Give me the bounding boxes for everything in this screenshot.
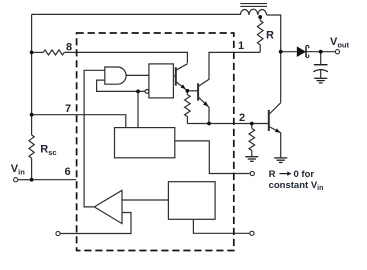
reference block xyxy=(168,182,215,220)
wire Q1 res lead bottom xyxy=(186,117,188,124)
wire AND lower input loop xyxy=(97,80,145,91)
node Vout cap xyxy=(319,50,323,54)
wire block to comparator input xyxy=(122,199,168,201)
resistor pin8 xyxy=(43,50,64,55)
wire diode anode xyxy=(281,51,297,53)
resistor Q1 emitter xyxy=(185,95,191,117)
svg-text:0 for: 0 for xyxy=(294,169,315,180)
wire left rail lower xyxy=(31,158,33,180)
latch block xyxy=(149,64,174,98)
wire comparator output to AND input xyxy=(84,70,105,207)
wire diode cathode to Vout xyxy=(306,51,335,53)
wire ext transistor collector diagonal xyxy=(269,103,281,115)
diode D1 schottky xyxy=(297,46,306,57)
comparator xyxy=(94,190,122,223)
svg-text:7: 7 xyxy=(65,103,71,115)
wire AND output to latch xyxy=(126,74,149,76)
resistor pin2 xyxy=(249,129,255,151)
ground Q3 emitter xyxy=(274,158,287,163)
wire Q2 emitter xyxy=(198,97,209,124)
wire pin 6 xyxy=(32,179,77,181)
ground cap xyxy=(314,78,327,83)
wire left rail upper xyxy=(31,14,33,134)
svg-text:6: 6 xyxy=(64,166,70,178)
wire comparator lower input to pin5 terminal xyxy=(60,213,131,234)
capacitor C1 plates xyxy=(314,64,328,66)
node osc gate latch xyxy=(136,90,140,94)
wire Q2 collector xyxy=(198,52,260,86)
wire switch collector rail xyxy=(267,15,281,103)
dashed IC box xyxy=(77,33,234,251)
node Vin rail xyxy=(30,178,34,182)
resistor R external xyxy=(257,21,263,45)
transistor Q2 base bar xyxy=(197,83,199,100)
and gate U1 xyxy=(105,67,126,84)
node Q2 emitter xyxy=(207,122,211,126)
svg-text:8: 8 xyxy=(66,42,72,54)
node pin8 rail xyxy=(30,51,34,55)
node inductor tap xyxy=(258,15,262,19)
svg-text:1: 1 xyxy=(238,40,244,52)
wire block bottom to pin4 terminal xyxy=(193,219,249,233)
svg-text:R: R xyxy=(266,30,274,42)
transistor Q1 base bar xyxy=(175,67,177,85)
node pin2 xyxy=(250,122,254,126)
transistor Q1 emitter arrow xyxy=(181,84,186,89)
wire pin2 resistor lead xyxy=(251,124,253,129)
open terminals xyxy=(14,50,340,236)
resistor Rsc xyxy=(29,135,34,158)
wire Q1 emitter diagonal xyxy=(176,82,188,91)
wire pin 8 stub xyxy=(32,51,44,53)
wire Q1 res lead top xyxy=(186,91,188,95)
wire latch to Q1 base xyxy=(173,75,175,77)
wire cap bottom lead xyxy=(320,70,322,78)
terminal pin5 xyxy=(56,231,60,235)
terminal pin4 xyxy=(250,231,254,235)
node Q1 emitter xyxy=(186,89,190,93)
wire ext transistor emitter xyxy=(269,127,281,158)
svg-text:Vout: Vout xyxy=(330,36,350,49)
wire Q1 collector diagonal xyxy=(176,64,188,71)
wire Vin lead xyxy=(18,179,32,181)
transistor Q3 emitter arrow xyxy=(275,128,280,132)
inductor L xyxy=(240,9,266,15)
wire oscillator to latch bubble node xyxy=(137,91,139,127)
terminal Vout xyxy=(335,50,339,54)
svg-text:Rsc: Rsc xyxy=(40,143,56,156)
wire Q1 emitter node to Q2 base xyxy=(187,90,198,92)
transistor Q3 base bar xyxy=(268,110,270,131)
wire pin 7 xyxy=(32,115,126,128)
wire inductor tap lead xyxy=(259,15,261,21)
svg-text:R: R xyxy=(269,169,276,180)
wire cap top lead xyxy=(320,52,322,65)
wire oscillator output to pin3 terminal xyxy=(175,141,250,174)
node pin7 rail xyxy=(30,113,34,117)
wire R bottom lead pin1 xyxy=(259,45,261,53)
svg-text:constant Vin: constant Vin xyxy=(269,180,324,192)
terminal pin3 xyxy=(250,171,254,175)
svg-text:2: 2 xyxy=(239,112,245,124)
terminal Vin xyxy=(14,178,18,182)
svg-text:Vin: Vin xyxy=(11,163,25,176)
transistor Q2 emitter arrow xyxy=(203,101,208,106)
oscillator block xyxy=(115,128,175,158)
node diode anode xyxy=(279,50,283,54)
latch clock bubble xyxy=(145,90,149,94)
wire pin2 res to ground xyxy=(251,151,253,157)
ground pin2 resistor xyxy=(245,157,258,162)
arrow glyph xyxy=(280,173,290,175)
wire pin 8 to Q1 collector xyxy=(64,52,187,63)
inductor core lines xyxy=(240,4,267,7)
wire IC bottom rail pin2 xyxy=(187,123,268,125)
wire top rail xyxy=(32,13,241,15)
